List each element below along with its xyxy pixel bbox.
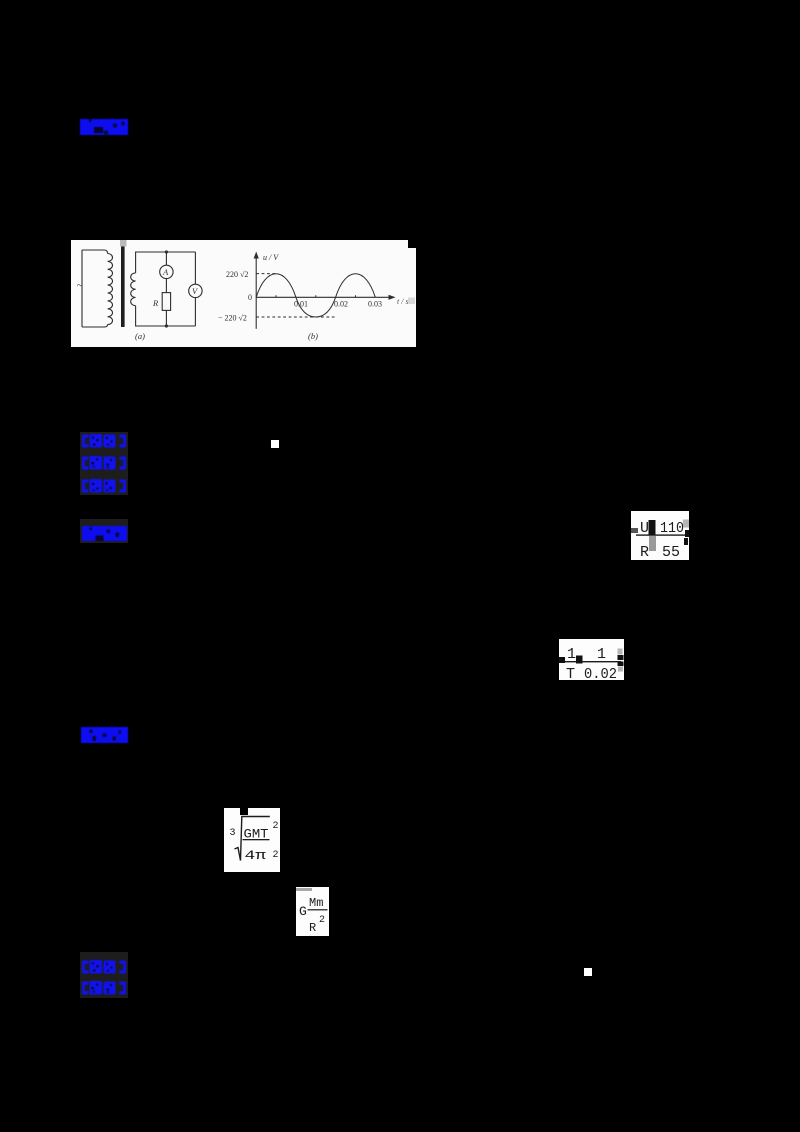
svg-text:(b): (b) (308, 331, 318, 341)
svg-text:4π: 4π (245, 848, 267, 863)
label chip 【分析】 (81, 479, 127, 493)
svg-text:Mm: Mm (309, 896, 323, 910)
top-right notch of scanned image (408, 240, 416, 248)
gray smudge right of t/s (408, 298, 415, 305)
dashed amplitude lines (256, 274, 335, 317)
primary loop wires (82, 250, 108, 327)
resistor R body (162, 293, 170, 311)
label chip 【答案】 (question 1 answer marker) (80, 119, 128, 135)
svg-text:R: R (640, 544, 649, 560)
iron core (121, 246, 125, 327)
right artifacts (618, 649, 623, 655)
svg-text:0.03: 0.03 (368, 300, 382, 309)
svg-text:~: ~ (77, 281, 83, 292)
formula image: U/R = 110/55 (631, 511, 689, 560)
fraction bar (308, 909, 328, 910)
gray panel behind last two chips (80, 952, 128, 998)
secondary coil (4 bumps, bulge right) (131, 273, 136, 306)
svg-text:2: 2 (273, 850, 279, 861)
svg-text:0: 0 (248, 293, 252, 302)
right branch through V (194, 252, 196, 326)
axis arrowheads (254, 252, 259, 259)
fraction bar (636, 534, 687, 535)
dark blob (equals artifact) (649, 520, 656, 535)
label chip 【分析】 (bottom) (81, 960, 127, 975)
svg-text:− 220 √2: − 220 √2 (218, 314, 247, 323)
svg-text:3: 3 (230, 828, 236, 839)
svg-text:2: 2 (319, 915, 325, 926)
svg-text:1: 1 (567, 646, 576, 663)
svg-text:G: G (299, 904, 307, 919)
right artifacts (683, 520, 689, 528)
primary coil (9 bumps, bulge left) (108, 254, 113, 325)
svg-text:0.02: 0.02 (584, 666, 617, 680)
ammeter A circle (160, 265, 173, 278)
gray panel behind 【解答】 chip (80, 519, 128, 543)
svg-text:1: 1 (597, 646, 606, 663)
svg-text:T: T (566, 666, 575, 680)
svg-text:u / V: u / V (263, 253, 279, 262)
graph axes (256, 256, 391, 329)
fraction bar (243, 839, 270, 840)
fraction bar (561, 661, 621, 662)
svg-text:0.02: 0.02 (334, 300, 348, 309)
label chip 【解析】 (q2 answer marker) (81, 727, 128, 743)
svg-text:(a): (a) (135, 331, 145, 341)
left edge artifact (631, 528, 638, 533)
label chip 【考点】 (81, 434, 127, 448)
junction dots (165, 250, 168, 253)
small white image placeholder square 2 (584, 968, 592, 976)
small white image placeholder square 1 (271, 440, 279, 448)
svg-text:2: 2 (273, 821, 279, 832)
svg-text:t / s: t / s (397, 297, 409, 306)
svg-text:0.01: 0.01 (294, 300, 308, 309)
gray pad on top of core (120, 240, 127, 247)
formula image: cube root of GMT^2 / 4 pi^2 (224, 808, 280, 872)
label chip 【解答】 (82, 526, 127, 541)
ticks on t axis (276, 295, 356, 297)
gray panel behind three label chips (80, 432, 128, 495)
label chip 【解答】 (bottom) (81, 981, 127, 996)
voltmeter V circle (189, 284, 202, 297)
svg-text:R: R (152, 298, 159, 308)
svg-text:220 √2: 220 √2 (226, 270, 248, 279)
secondary circuit wires (136, 252, 196, 326)
formula image: G Mm/R^2 (296, 887, 329, 936)
figure: transformer circuit (a) and voltage waveform (b) (71, 240, 416, 347)
middle branch (165, 252, 167, 326)
svg-text:55: 55 (662, 544, 680, 560)
formula image: 1/T = 1/0.02 (559, 639, 624, 680)
black notch top (240, 808, 248, 815)
radical (235, 817, 270, 861)
label chip 【专题】 (81, 456, 127, 470)
sine curve (256, 274, 375, 317)
black blobs (559, 657, 565, 663)
svg-text:R: R (309, 921, 316, 935)
svg-text:A: A (162, 267, 169, 277)
